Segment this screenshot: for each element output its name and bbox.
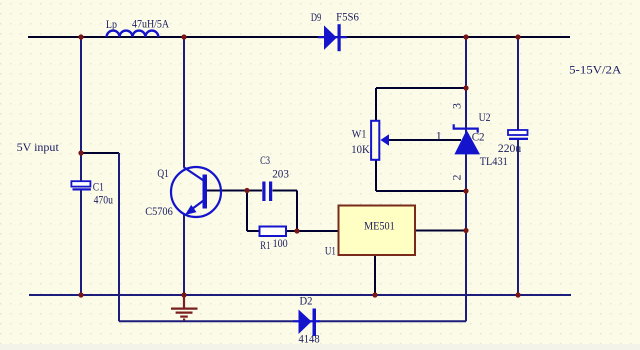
svg-text:Lp: Lp: [106, 17, 117, 31]
svg-text:TL431: TL431: [480, 154, 508, 168]
wire main right vertical: [465, 37, 467, 321]
svg-text:100: 100: [273, 236, 288, 250]
junction dot R1 right node: [294, 228, 299, 233]
junction dot U2 anode: [463, 188, 468, 193]
wire top rail: [28, 36, 570, 38]
wire W1 top net: [376, 88, 466, 121]
svg-text:Q1: Q1: [157, 166, 169, 180]
svg-text:220u: 220u: [498, 141, 521, 155]
wire C2 vertical: [517, 37, 519, 295]
resistor R1: [260, 227, 287, 237]
svg-text:470u: 470u: [94, 192, 113, 206]
svg-text:C2: C2: [472, 130, 485, 144]
svg-text:10K: 10K: [351, 142, 370, 156]
diode D9: [318, 24, 347, 51]
wire Q1 collector vertical: [183, 37, 185, 167]
svg-text:R1: R1: [260, 238, 270, 252]
svg-text:D2: D2: [300, 294, 313, 308]
svg-text:4148: 4148: [299, 332, 320, 346]
wire Q1 emitter vertical: [183, 214, 185, 295]
wire C3 row: [246, 190, 297, 192]
svg-text:2: 2: [450, 175, 464, 181]
svg-text:5V input: 5V input: [17, 140, 60, 154]
wire bottom rail: [29, 294, 571, 296]
junction dot W1 top: [463, 85, 468, 90]
svg-text:ME501: ME501: [364, 219, 395, 233]
junction dot bottom left: [78, 292, 83, 297]
svg-text:C3: C3: [260, 153, 270, 167]
capacitor C3: [262, 182, 272, 202]
svg-text:C5706: C5706: [145, 204, 173, 218]
svg-text:F5S6: F5S6: [336, 10, 359, 24]
capacitor C1: [71, 181, 91, 190]
wire Q1 base horizontal: [207, 190, 247, 192]
potentiometer W1: [371, 121, 389, 160]
svg-text:203: 203: [272, 166, 289, 180]
junction dot C2 rail: [515, 34, 520, 39]
junction dot C2 bottom: [515, 292, 520, 297]
shunt regulator U2 TL431: [454, 124, 480, 154]
svg-text:U2: U2: [479, 110, 491, 124]
junction dot ground rail: [181, 292, 186, 297]
capacitor C2: [508, 130, 528, 140]
wire U1 bottom pin: [374, 255, 376, 295]
svg-text:47uH/5A: 47uH/5A: [132, 17, 169, 31]
wire W1 wiper to U2 pin 1: [389, 139, 461, 141]
junction dot U1 bottom pin: [372, 292, 377, 297]
inductor Lp: [107, 31, 159, 37]
svg-text:U1: U1: [325, 244, 336, 258]
junction dot input branch: [78, 150, 83, 155]
ground: [171, 295, 198, 320]
wire 5V input branch horizontal: [80, 152, 119, 154]
svg-text:W1: W1: [352, 126, 367, 140]
svg-text:5-15V/2A: 5-15V/2A: [569, 62, 622, 76]
junction dot Q1 base node: [244, 188, 249, 193]
svg-text:D9: D9: [311, 10, 321, 24]
wire D2 bottom row: [119, 320, 466, 322]
svg-text:1: 1: [436, 129, 442, 143]
wire feedback left vertical: [118, 153, 120, 321]
wire node C3 right vertical: [296, 191, 298, 232]
IC U1 ME501: [339, 206, 416, 256]
diode D2: [293, 309, 320, 337]
wire U1 right pin: [415, 230, 466, 232]
transistor Q1: [171, 167, 221, 217]
junction dot U1 right pin: [463, 228, 468, 233]
wire R1 row to U1: [247, 230, 339, 232]
junction dot Q1 collector rail: [181, 34, 186, 39]
wire node C3 left vertical: [246, 191, 248, 232]
junction dot right vertical rail: [463, 34, 468, 39]
wire left vertical input branch: [80, 37, 82, 295]
wire W1 bottom net: [376, 160, 466, 191]
svg-text:3: 3: [449, 103, 463, 109]
junction dot top-left: [78, 34, 83, 39]
